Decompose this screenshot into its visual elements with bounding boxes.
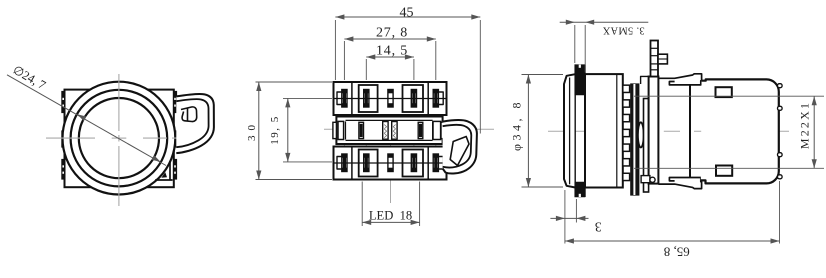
contact nubs on right edge [778,84,783,88]
bottom latch lever [658,178,701,189]
rubber gasket ring [574,65,576,197]
svg-text:19, 5: 19, 5 [269,115,281,145]
middle block spring contacts [383,122,388,140]
button face profile [564,74,575,187]
middle view: rear view of contact blocks [246,5,494,226]
top latch lever [658,74,701,85]
inner circle button face d24.7 [79,98,159,178]
dimension M22X1 [634,95,824,97]
left view: front view of pushbutton [7,63,214,206]
dimension LED 18 [362,221,419,223]
outer bezel circle [63,82,176,195]
middle block side tabs [333,122,337,138]
svg-text:30: 30 [246,120,258,141]
square mounting body [65,90,174,188]
mounting adapter plate [649,77,659,184]
vertical centerlines through terminals [343,84,345,179]
horizontal centerline of side view [548,130,789,132]
svg-text:M22X1: M22X1 [798,101,812,149]
dimension 3 gasket [550,217,588,219]
anti-rotation teeth [623,85,630,92]
middle block left cap [338,121,344,139]
contact block housing body [701,79,779,183]
label d24.7 [11,63,49,93]
svg-text:45: 45 [400,5,414,20]
side tabs on square body [62,92,65,113]
bottom contact block row [334,147,447,180]
dimension 14.5 [366,56,414,58]
dimension 19.5 [287,98,289,161]
post side tab [658,54,667,64]
bezel housing [585,74,623,187]
horizontal centerline of middle view [324,128,494,130]
middle circle button rim [71,90,168,187]
svg-text:3: 3 [595,219,602,234]
svg-text:27, 8: 27, 8 [376,26,408,41]
crosshair centerlines [46,137,95,139]
dimension 45 [335,16,480,18]
threaded section [631,84,639,195]
dimension 65.8 overall [565,240,780,242]
diameter dimension line d24.7 [7,75,166,166]
dimension 30 [258,82,260,180]
middle block terminal slots [359,122,364,138]
svg-text:3. 5MAX: 3. 5MAX [602,24,644,35]
adjustment screw post [651,41,659,77]
adapter bottom foot [641,176,650,183]
svg-text:LED 18: LED 18 [369,209,412,223]
keyway mark at square bottom-right corner [155,179,172,181]
lock washer [644,99,649,193]
latch loop on right of middle block [443,120,477,174]
latch clip on right side of body [176,94,214,153]
top contact block row [334,82,447,115]
middle block (lamp module) [336,117,442,145]
right view: side view of assembled switch [510,20,825,260]
lamp ellipse [638,122,644,147]
svg-text:14, 5: 14, 5 [376,44,408,59]
dimension 3.5MAX [560,21,649,23]
dimension d34.8 [527,75,529,188]
terminal windows on housing [716,87,732,97]
latch inner hook [181,107,197,122]
latch inner slot [450,137,469,166]
svg-text:65, 8: 65, 8 [664,245,690,260]
svg-text:φ34, 8: φ34, 8 [510,99,524,151]
dimension 27.8 [344,38,435,40]
middle block right cap [433,121,441,139]
